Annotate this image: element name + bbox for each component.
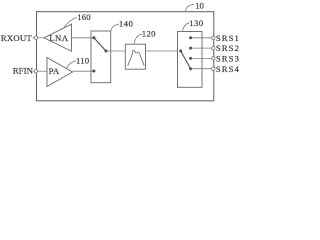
svg-text:120: 120 xyxy=(142,29,156,39)
port SRS3 xyxy=(212,57,215,60)
switch 130 throw node SRS4 xyxy=(189,67,192,70)
wire switch 130 to SRS1 port xyxy=(191,37,212,39)
svg-text:PA: PA xyxy=(49,66,60,76)
leader for label 140 xyxy=(110,24,119,33)
leader for label 160 xyxy=(64,17,77,27)
port RXOUT xyxy=(34,36,37,39)
port RFIN xyxy=(34,70,37,73)
svg-text:SRS3: SRS3 xyxy=(216,54,240,64)
svg-text:110: 110 xyxy=(76,55,90,65)
op-amp PA 110 (right-pointing amplifier triangle) xyxy=(47,58,72,87)
leader for label 120 xyxy=(134,34,142,43)
op-amp LNA 160 (left-pointing amplifier triangle) xyxy=(44,24,72,51)
svg-text:10: 10 xyxy=(195,0,204,10)
port SRS1 xyxy=(212,36,215,39)
switch 140 common node xyxy=(105,50,108,53)
switch box 130 xyxy=(178,32,203,88)
filter box 120 xyxy=(125,44,145,69)
switch 140 throw node (PA side) xyxy=(92,70,95,73)
wire switch 130 to SRS2 port xyxy=(191,47,212,49)
port SRS2 xyxy=(212,46,215,49)
svg-text:RXOUT: RXOUT xyxy=(1,33,33,43)
svg-text:RFIN: RFIN xyxy=(13,66,34,76)
port SRS4 xyxy=(212,67,215,70)
wire LNA base to switch 140 xyxy=(72,37,94,39)
wire RFIN to PA base xyxy=(33,70,47,72)
wire switch 130 to SRS3 port xyxy=(191,57,212,59)
switch 130 arm xyxy=(181,51,191,69)
wire switch 140 common to filter 120 xyxy=(106,50,125,52)
svg-text:160: 160 xyxy=(77,12,91,22)
leader for label 110 xyxy=(66,61,76,68)
svg-text:SRS2: SRS2 xyxy=(216,43,240,53)
module boundary box 10 xyxy=(37,12,214,101)
switch 130 common node xyxy=(179,50,182,53)
switch 140 arm xyxy=(94,38,106,51)
wire RXOUT to LNA tip xyxy=(33,37,45,39)
leader for label 130 xyxy=(183,23,190,31)
svg-text:SRS1: SRS1 xyxy=(216,33,240,43)
wire PA tip to switch 140 xyxy=(72,70,93,72)
switch 140 throw node (LNA side) xyxy=(92,36,95,39)
svg-text:140: 140 xyxy=(119,19,134,29)
svg-text:130: 130 xyxy=(189,18,204,28)
svg-text:LNA: LNA xyxy=(49,33,69,43)
filter 120 bandpass symbol xyxy=(128,50,145,66)
switch 130 throw node SRS2 xyxy=(189,47,192,50)
switch 130 throw node SRS1 xyxy=(189,36,192,39)
svg-text:SRS4: SRS4 xyxy=(216,64,240,74)
switch 130 throw node SRS3 xyxy=(189,57,192,60)
wire filter 120 to switch 130 xyxy=(146,50,178,52)
wire switch 130 to SRS4 port xyxy=(191,68,212,70)
switch box 140 xyxy=(91,31,111,83)
leader for label 10 xyxy=(185,4,194,12)
